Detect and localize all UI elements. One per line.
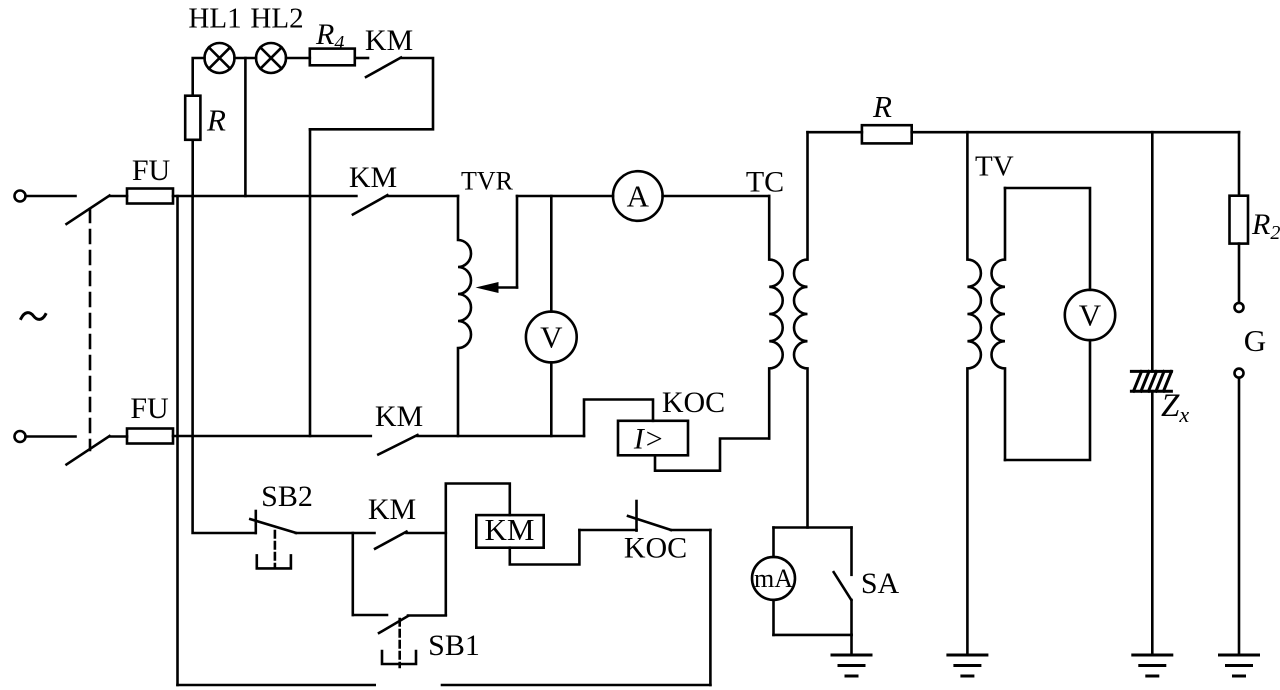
svg-text:TVR: TVR bbox=[461, 167, 514, 196]
wire mA/SA top bbox=[774, 526, 852, 529]
wire bottom bus to KOC coil bbox=[584, 400, 653, 437]
wire A to TC bbox=[663, 195, 770, 198]
AC source symbol ~ bbox=[21, 313, 46, 320]
wire QS2 to FU2 bbox=[110, 435, 127, 438]
pushbutton SB1 actuator dashed bbox=[398, 619, 401, 667]
wire SB1 branch left bbox=[351, 533, 354, 615]
contact KM (self-hold) blade bbox=[375, 532, 406, 549]
wire mA/SA bottom bbox=[774, 634, 852, 637]
wire control feed vertical bbox=[193, 196, 256, 533]
wire G bottom lead bbox=[1238, 378, 1241, 655]
voltmeter V1 bbox=[526, 312, 577, 363]
ground (mA/SA) bbox=[832, 655, 871, 676]
svg-text:Zx: Zx bbox=[1161, 388, 1189, 427]
wire KOC left lead bbox=[579, 529, 636, 532]
wire lamp return vertical bbox=[309, 129, 312, 436]
wire X1 lead bbox=[26, 195, 76, 198]
svg-text:KM: KM bbox=[365, 24, 413, 57]
wire V1 bottom lead bbox=[550, 362, 553, 436]
terminal X1 bbox=[15, 191, 26, 202]
autotransformer TVR wiper arrow bbox=[476, 282, 518, 293]
svg-text:FU: FU bbox=[130, 392, 169, 425]
wire KOC coil to TC primary bbox=[655, 439, 769, 471]
svg-text:KOC: KOC bbox=[624, 532, 687, 565]
switch SA blade bbox=[834, 572, 852, 600]
ground (G) bbox=[1220, 655, 1259, 676]
svg-text:KM: KM bbox=[375, 400, 423, 433]
wire R top to HL1 bbox=[193, 58, 205, 96]
switch QS1 blade bbox=[67, 196, 110, 225]
wire SA top lead bbox=[850, 528, 853, 575]
svg-text:TV: TV bbox=[975, 151, 1014, 183]
ammeter A bbox=[613, 171, 663, 221]
wire TV secondary bottom loop bbox=[1005, 340, 1090, 460]
ground (Zx) bbox=[1133, 655, 1172, 676]
wire R2 to gap bbox=[1238, 244, 1241, 303]
wire KM to TVR bbox=[387, 195, 458, 198]
svg-text:KM: KM bbox=[485, 512, 535, 547]
wire mA top lead bbox=[772, 528, 775, 557]
svg-text:R: R bbox=[206, 103, 226, 138]
svg-text:HL2: HL2 bbox=[250, 3, 303, 35]
resistor R (HV) bbox=[862, 125, 912, 143]
switch QS2 blade bbox=[67, 436, 110, 465]
wire TVR wiper to bus bbox=[516, 196, 519, 288]
pushbutton SB1 cap bracket bbox=[382, 651, 416, 664]
pushbutton SB2 blade bbox=[250, 519, 296, 533]
wire HL1 to HL2 bbox=[235, 57, 257, 60]
pushbutton SB1 left lead bbox=[353, 614, 387, 617]
wire QS1 to FU1 bbox=[110, 195, 127, 198]
wire bottom main bus (KM to riser) bbox=[418, 435, 585, 438]
svg-text:HL1: HL1 bbox=[188, 3, 241, 35]
wire Zx top lead bbox=[1151, 132, 1154, 371]
wire bottom main bus (FU2 to KM) bbox=[173, 435, 371, 438]
wire ground stem mA/SA bbox=[850, 635, 853, 655]
wire bottom bus left bbox=[178, 684, 375, 687]
wire R bottom lead bbox=[191, 140, 194, 196]
wire KM coil feed bbox=[446, 484, 510, 616]
svg-text:KOC: KOC bbox=[662, 386, 725, 419]
transformer TV secondary winding bbox=[991, 188, 1005, 460]
svg-text:SB1: SB1 bbox=[428, 629, 480, 662]
wire mA bottom lead bbox=[772, 600, 775, 635]
wire KM lamp return bbox=[310, 58, 433, 129]
svg-text:V: V bbox=[1079, 298, 1102, 333]
contact KOC blade bbox=[628, 516, 671, 530]
pushbutton SB2 cap bracket bbox=[257, 555, 291, 568]
wire top bus (FU1 to KM) bbox=[173, 195, 356, 198]
wire R2 top lead bbox=[1238, 132, 1241, 196]
contact KM (lamp) blade bbox=[366, 58, 401, 78]
svg-text:mA: mA bbox=[754, 564, 793, 593]
svg-text:R: R bbox=[872, 89, 892, 124]
spark gap G upper ball bbox=[1235, 303, 1244, 312]
wire lamp junction drop bbox=[244, 58, 247, 196]
ground (TV) bbox=[948, 655, 987, 676]
wire bus TVR to A bbox=[517, 195, 613, 198]
voltmeter V2 bbox=[1065, 290, 1115, 340]
wire HL2 to R4 bbox=[286, 57, 310, 60]
wire SB2 to KM contact bbox=[296, 532, 375, 535]
pushbutton SB1 blade bbox=[379, 616, 408, 633]
autotransformer TVR winding bbox=[458, 196, 471, 436]
wire TC to R (HV) bbox=[808, 131, 862, 134]
wire KM contact to junction bbox=[407, 532, 446, 535]
svg-text:A: A bbox=[627, 179, 650, 214]
contact KOC tick bbox=[635, 501, 638, 531]
wire top HV bus bbox=[912, 131, 1239, 134]
wire KOC right lead bbox=[671, 529, 710, 532]
transformer TC primary winding bbox=[769, 196, 783, 439]
svg-text:KM: KM bbox=[349, 161, 397, 194]
svg-text:G: G bbox=[1244, 323, 1266, 358]
wire KM coil to KOC contact bbox=[510, 530, 580, 565]
terminal X2 bbox=[15, 431, 26, 442]
svg-text:KM: KM bbox=[368, 493, 416, 526]
wire Zx bottom lead bbox=[1151, 391, 1154, 655]
contact KM (bottom bus) blade bbox=[378, 435, 417, 455]
svg-text:V: V bbox=[540, 320, 563, 355]
wire V1 top lead bbox=[550, 196, 553, 312]
svg-text:TC: TC bbox=[746, 166, 784, 199]
svg-text:R4: R4 bbox=[315, 18, 344, 54]
wire SA bottom lead bbox=[850, 600, 853, 635]
pushbutton SB2 tick bbox=[255, 511, 258, 533]
wire left vertical to bottom bus bbox=[176, 196, 179, 685]
switch QS linkage dashed bbox=[89, 209, 92, 450]
wire TV secondary top loop bbox=[1005, 188, 1090, 290]
relay KOC coil box bbox=[618, 421, 688, 456]
svg-text:SA: SA bbox=[861, 567, 900, 600]
spark gap G lower ball bbox=[1235, 369, 1244, 378]
resistor R (lamp) bbox=[185, 96, 200, 140]
milliammeter mA bbox=[752, 557, 795, 600]
fuse FU2 bbox=[127, 429, 173, 444]
svg-text:SB2: SB2 bbox=[261, 480, 313, 513]
wire R4 to KM contact bbox=[355, 57, 368, 60]
lamp HL1 bbox=[205, 43, 235, 73]
transformer TV primary winding bbox=[967, 132, 980, 655]
svg-text:I>: I> bbox=[633, 423, 664, 456]
wire X2 lead bbox=[26, 435, 76, 438]
contact KM (top bus) blade bbox=[353, 195, 388, 214]
wire bottom bus right bbox=[442, 684, 710, 687]
transformer TC secondary winding bbox=[794, 132, 808, 527]
impedance Zx symbol bbox=[1131, 371, 1171, 391]
fuse FU1 bbox=[127, 189, 173, 204]
resistor R4 bbox=[310, 49, 355, 66]
lamp HL2 bbox=[256, 43, 286, 73]
resistor R2 bbox=[1230, 196, 1249, 244]
svg-text:FU: FU bbox=[132, 154, 171, 187]
coil KM (contactor) box bbox=[476, 515, 543, 548]
wire right control drop bbox=[709, 530, 712, 685]
pushbutton SB2 actuator dashed bbox=[274, 531, 277, 568]
pushbutton SB1 right lead bbox=[408, 614, 446, 617]
svg-text:R2: R2 bbox=[1251, 208, 1280, 244]
